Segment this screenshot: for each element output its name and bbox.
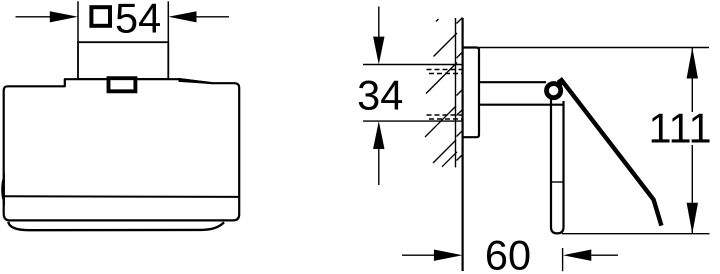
svg-text:34: 34 (357, 71, 403, 118)
svg-text:54: 54 (115, 0, 161, 42)
svg-text:60: 60 (485, 231, 531, 274)
svg-text:111: 111 (648, 105, 711, 152)
